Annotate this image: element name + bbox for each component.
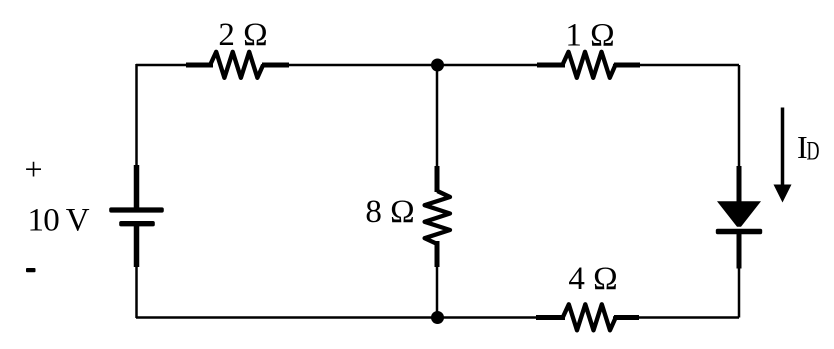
svg-text:+: + <box>24 151 42 187</box>
svg-text:D: D <box>807 137 820 166</box>
svg-text:2 Ω: 2 Ω <box>218 17 267 53</box>
svg-text:4 Ω: 4 Ω <box>568 261 617 297</box>
svg-text:1 Ω: 1 Ω <box>565 17 614 53</box>
svg-text:10 V: 10 V <box>28 203 90 239</box>
svg-text:8 Ω: 8 Ω <box>365 194 414 230</box>
